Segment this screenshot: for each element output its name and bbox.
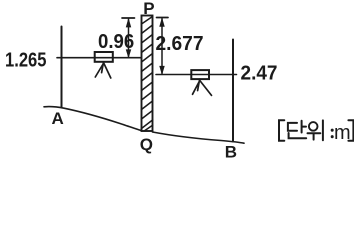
wall P-Q (hatching) (142, 17, 153, 131)
unit note: hangul WI (ㅣ) (322, 120, 324, 140)
dimension arrow 2.677 (tick) (157, 17, 169, 19)
svg-text:Q: Q (140, 135, 153, 154)
unit note: hangul DAN (ㅏ) (302, 121, 306, 133)
level instrument 2 (body) (191, 70, 209, 79)
svg-text:B: B (225, 143, 237, 159)
dimension arrow 0.96 (tick) (122, 17, 135, 19)
level instrument 2 (tripod) (193, 79, 212, 95)
unit note: closing bracket (348, 120, 353, 141)
svg-text:2.47: 2.47 (241, 62, 278, 85)
wall P-Q (rod body) (142, 16, 153, 132)
unit note: hangul DAN (ㄷ) (288, 123, 297, 131)
level instrument 1 (body) (95, 52, 113, 62)
unit note: hangul WI (ㅜ) (308, 133, 321, 139)
unit note: opening bracket (279, 120, 284, 141)
right sight line (156, 74, 237, 76)
dimension arrow 2.677 (arrowheads) (160, 19, 164, 74)
dimension arrow 2.677 (line) (161, 19, 163, 74)
staff at A (left vertical line) (61, 27, 63, 108)
left sight line (57, 57, 142, 59)
unit note: hangul DAN (ㄴ) (289, 133, 307, 138)
unit note: colon (331, 130, 334, 137)
svg-text:1.265: 1.265 (5, 48, 47, 71)
staff at B (right vertical line) (232, 40, 234, 142)
unit note: hangul WI (ㅇ) (309, 122, 318, 131)
level instrument 1 (tripod) (95, 62, 111, 78)
dimension arrow 0.96 (arrowheads) (126, 19, 130, 57)
svg-text:2.677: 2.677 (156, 33, 204, 55)
dimension arrow 0.96 (line) (128, 19, 130, 57)
svg-text:P: P (143, 0, 154, 18)
ground line (44, 107, 244, 144)
svg-text:A: A (52, 109, 64, 128)
